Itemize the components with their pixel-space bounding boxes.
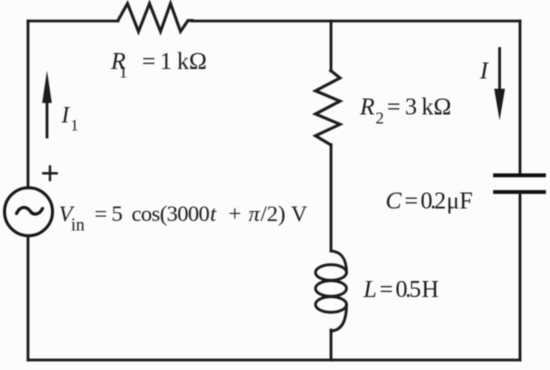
current arrow I bbox=[494, 49, 505, 121]
resistor R2 bbox=[316, 71, 341, 145]
plus sign polarity bbox=[43, 167, 56, 181]
svg-text:R2=3kΩ: R2=3kΩ bbox=[359, 95, 451, 128]
wire top-left segment bbox=[28, 20, 118, 23]
wire left upper segment bbox=[27, 21, 30, 187]
wire middle segment between R2 and L bbox=[330, 145, 333, 249]
svg-text:L=0.5H: L=0.5H bbox=[363, 277, 439, 303]
wire right lower segment bbox=[519, 193, 522, 360]
svg-text:I: I bbox=[61, 103, 71, 128]
svg-text:I: I bbox=[479, 59, 489, 85]
wire middle bottom segment bbox=[330, 330, 333, 360]
svg-text:1: 1 bbox=[71, 118, 79, 135]
wire left lower segment bbox=[27, 236, 30, 360]
resistor R1 bbox=[118, 4, 192, 32]
wire bottom segment bbox=[28, 359, 520, 362]
tilde of source bbox=[17, 207, 43, 214]
node top junction bbox=[330, 21, 333, 71]
current arrow I1 bbox=[42, 71, 52, 138]
svg-text:R1=1kΩ: R1=1kΩ bbox=[110, 49, 207, 82]
svg-text:C=0.2μF: C=0.2μF bbox=[386, 189, 473, 215]
wire right upper segment bbox=[519, 21, 522, 175]
capacitor C bbox=[495, 175, 544, 192]
inductor L bbox=[316, 251, 347, 331]
svg-text:Vin=5cos(3000t+π/2)V: Vin=5cos(3000t+π/2)V bbox=[59, 201, 307, 235]
source Vin bbox=[5, 188, 53, 236]
wire top-middle segment bbox=[192, 20, 520, 23]
